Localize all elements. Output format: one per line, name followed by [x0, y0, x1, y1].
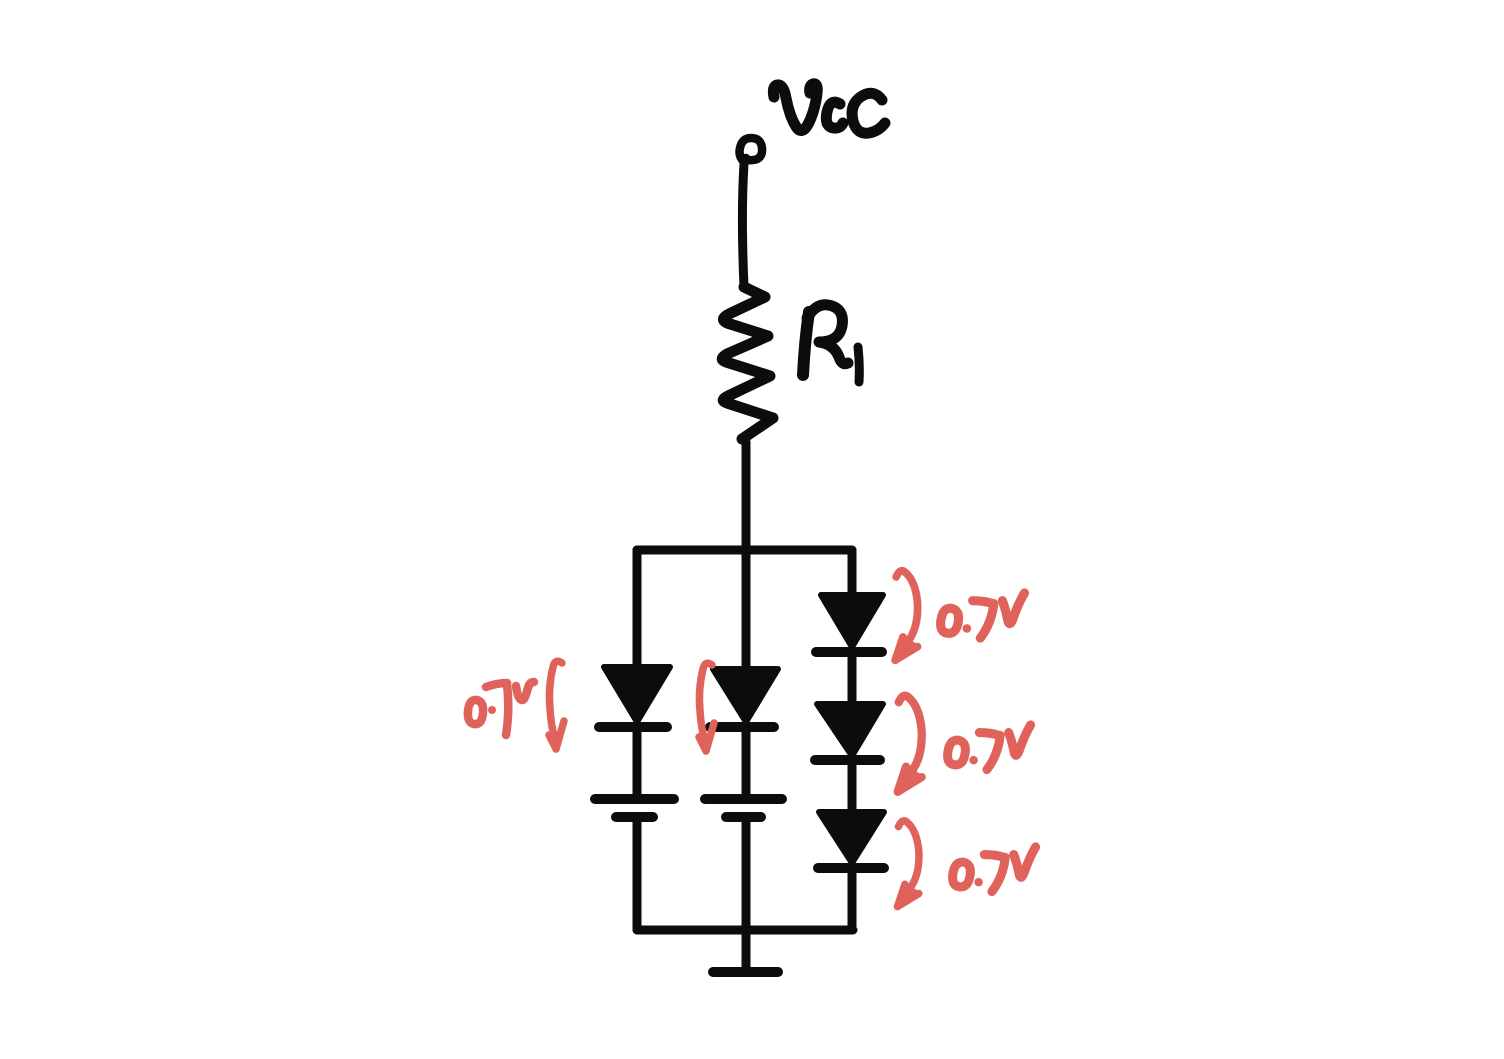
diode D3 (right top): [816, 595, 883, 652]
wire: B2 through bottom bus to ground: [742, 818, 751, 970]
label R1: [803, 305, 859, 382]
annotation: arrow at D3: [894, 571, 917, 661]
battery cell B1 (left): [595, 799, 674, 817]
wire: D3 to D4: [848, 652, 857, 705]
ground: [713, 967, 778, 977]
wire: D5 to bottom bus: [848, 868, 857, 930]
annotation: arrow at D5: [897, 821, 919, 908]
wire: D1 to B1: [633, 727, 642, 798]
annotation: 0.7v at D1 (left): [468, 682, 534, 735]
diode D4 (right middle): [815, 704, 883, 760]
annotation: 0.7v at D3: [941, 593, 1025, 638]
resistor R1: [722, 287, 773, 439]
annotation: 0.7v at D5: [953, 847, 1036, 892]
diode D5 (right bottom): [818, 812, 884, 868]
diode D1 (left): [599, 667, 670, 727]
wire: B1 to bottom bus: [633, 818, 642, 930]
wire: bottom bus: [637, 926, 853, 935]
wire: top bus: [637, 546, 852, 555]
wire: D2 to B2: [742, 727, 751, 798]
wire: top junction to D2 (middle branch): [742, 551, 751, 670]
annotation: arrow at D4: [897, 696, 922, 793]
annotation: arrow at D2 (middle): [699, 663, 714, 751]
wire: Vcc terminal to R1: [743, 164, 745, 287]
wire: D4 to D5: [848, 760, 857, 813]
wire: R1 to top junction: [742, 442, 751, 551]
wire: top bus right corner down to D3: [848, 550, 857, 597]
diode D2 (middle): [710, 669, 778, 727]
Vcc terminal: [740, 138, 763, 162]
battery cell B2 (middle): [705, 799, 782, 817]
node Vcc label: [773, 84, 885, 133]
wire: left branch down to D1: [633, 550, 642, 668]
annotation: 0.7v at D4: [948, 725, 1031, 770]
annotation: arrow at D1 (left): [549, 661, 564, 749]
